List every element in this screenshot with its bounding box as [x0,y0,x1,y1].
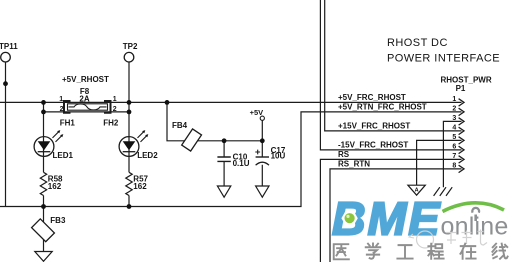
svg-text:+5V_RHOST: +5V_RHOST [62,75,109,84]
svg-text:FH1: FH1 [60,118,76,127]
svg-text:1: 1 [452,96,456,103]
fuse holder FH2 [103,96,119,127]
svg-text:FB4: FB4 [172,121,188,130]
svg-text:FH2: FH2 [103,118,119,127]
svg-text:5: 5 [452,134,456,141]
wire main +5V_RHOST line (net to pin 1) [0,101,462,103]
pin numbers [452,96,456,170]
ferrite bead FB4 [172,121,202,151]
wire C10 branch [223,141,225,186]
node fuse left top [41,100,46,105]
svg-text:2: 2 [452,106,456,113]
analog ground A [408,185,425,195]
fuse F8 2A [68,87,108,110]
svg-text:2: 2 [113,106,117,113]
svg-text:+5V_FRC_RHOST: +5V_FRC_RHOST [338,93,406,102]
svg-text:LED2: LED2 [137,151,158,160]
svg-text:+5V_RTN_FRC_RHOST: +5V_RTN_FRC_RHOST [338,103,427,112]
wire LED1 chain vertical [43,102,45,206]
LED1 [34,130,73,160]
node FB4 tap [165,100,170,105]
svg-text:1: 1 [113,96,117,103]
wire vertical bus B to pin 4 [325,0,462,131]
wire RS RTN net [330,169,462,262]
svg-text:+5V: +5V [250,108,264,117]
test point TP2 [123,42,138,62]
wire pin 5 to analog ground [417,140,462,185]
node C17 tap [260,138,265,143]
ground below C10 [217,186,230,197]
svg-text:-15V_FRC_RHOST: -15V_FRC_RHOST [338,141,408,150]
fuse holder FH1 [59,96,75,127]
wire FB3 branch [43,207,45,252]
svg-text:POWER INTERFACE: POWER INTERFACE [387,52,500,64]
wrench dot on i [472,208,479,221]
watermark logo BME online [332,193,508,260]
node TP11 stub [3,81,8,86]
connector title RHOST_PWR P1 [441,76,492,94]
svg-text:3: 3 [452,115,456,122]
svg-text:P1: P1 [456,84,466,93]
svg-text:2A: 2A [79,94,89,103]
svg-text:162: 162 [133,182,147,191]
wire FB4 branch to caps [167,102,262,140]
svg-text:2: 2 [60,106,64,113]
ferrite bead FB3 [32,216,66,242]
svg-text:6: 6 [452,144,456,151]
pin 7 chevron [459,156,464,163]
wire TP11 vertical [5,62,7,207]
node fuse right bottom [127,110,132,115]
svg-text:LED1: LED1 [53,151,74,160]
chassis ground [434,187,453,196]
capacitor C10 [217,152,249,168]
svg-text:RS: RS [338,150,350,159]
pin 8 chevron [459,165,464,172]
title RHOST DC POWER INTERFACE [387,37,500,64]
svg-text:RHOST DC: RHOST DC [387,37,448,49]
ground below C17 [256,186,269,197]
svg-text:7: 7 [452,153,456,160]
svg-text:RS_RTN: RS_RTN [338,160,370,169]
pin 4 chevron [459,127,464,134]
svg-text:RHOST_PWR: RHOST_PWR [441,76,492,85]
wire bottom return rail to pin 2 [0,112,462,207]
svg-text:FB3: FB3 [50,216,66,225]
svg-text:162: 162 [48,182,62,191]
wire fuse bottom segment [44,111,130,113]
svg-text:0.1U: 0.1U [233,159,250,168]
LED2 [119,130,158,160]
svg-text:4: 4 [452,125,456,132]
capacitor C17 (polarized) [255,146,286,165]
pin 2 chevron [459,108,464,115]
wire +5V supply drop / C17 branch [261,120,263,186]
resistor R58 [40,172,63,195]
pin 1 chevron [459,99,464,106]
power +5V [250,108,265,120]
chinese characters 医学工程在线 [334,243,508,259]
svg-text:8: 8 [452,163,456,170]
node rail LED1 [41,204,46,209]
node fuse right top [127,100,132,105]
wire pin 3 to chassis ground [443,121,461,187]
svg-text:A: A [415,188,419,194]
wire vertical bus A to pin 6 [320,0,461,150]
junction dots [3,81,265,209]
svg-text:+15V_FRC_RHOST: +15V_FRC_RHOST [338,122,410,131]
svg-text:TP11: TP11 [0,42,18,51]
node fuse left bottom [41,110,46,115]
pin 6 chevron [459,146,464,153]
test point TP11 [0,42,18,62]
pin 5 chevron [459,137,464,144]
svg-text:10U: 10U [271,152,286,161]
resistor R57 [126,172,149,195]
ground below FB3 [35,252,52,262]
wire TP2 / LED2 chain vertical [128,62,130,207]
svg-text:1: 1 [59,96,63,103]
faint stamp 健康力 [409,230,487,249]
connector P1 RHOST_PWR pins [459,99,464,173]
node C10 tap [222,138,227,143]
pin 3 chevron [459,118,464,125]
wire RS net [320,159,461,262]
svg-text:TP2: TP2 [123,42,138,51]
node rail LED2 [127,204,132,209]
